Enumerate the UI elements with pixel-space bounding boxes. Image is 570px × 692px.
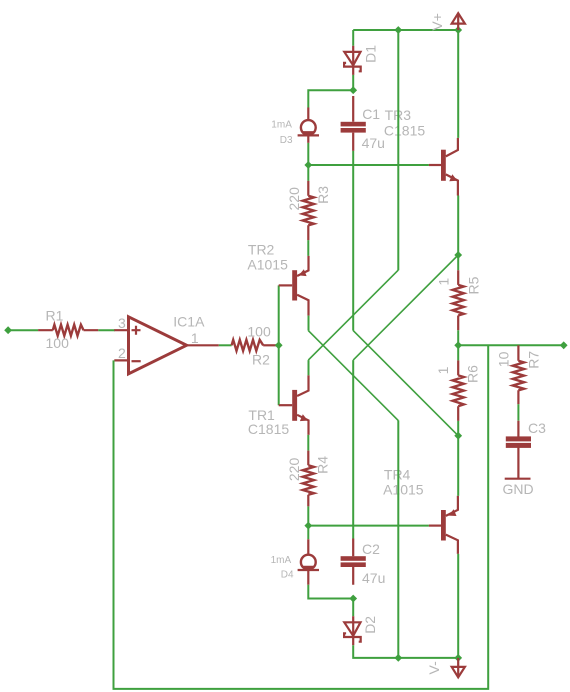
node A (D3/R3/TR3 base) bbox=[304, 161, 312, 169]
node output junction bbox=[454, 341, 462, 349]
svg-text:1: 1 bbox=[191, 330, 199, 346]
wire node B to D4 bbox=[307, 526, 309, 540]
power V- symbol bbox=[426, 658, 465, 677]
svg-text:D3: D3 bbox=[280, 135, 293, 146]
svg-text:R7: R7 bbox=[526, 351, 542, 369]
svg-text:1mA: 1mA bbox=[271, 119, 292, 130]
wire R1 to op-amp pin 3 bbox=[98, 329, 115, 331]
wire TR1 collector to V+ rail (diagonal) bbox=[308, 360, 310, 375]
resistor R2 bbox=[232, 323, 279, 367]
wire D1 bottom to node bbox=[352, 75, 354, 90]
wire input to R1 bbox=[8, 329, 38, 331]
svg-text:C1815: C1815 bbox=[384, 122, 425, 138]
wire TR2 collector to V- rail (diagonal) bbox=[308, 316, 310, 331]
wire bases vertical bbox=[278, 285, 280, 405]
node R6 bottom bbox=[454, 432, 462, 440]
node IN (input terminal dot) bbox=[4, 326, 12, 334]
svg-text:1mA: 1mA bbox=[271, 555, 292, 566]
wire D1 top bbox=[352, 30, 354, 46]
svg-text:C2: C2 bbox=[362, 541, 380, 557]
svg-text:47u: 47u bbox=[362, 135, 385, 151]
resistor R7 10 bbox=[496, 345, 542, 404]
svg-text:V+: V+ bbox=[429, 13, 445, 31]
wire output horizontal bbox=[458, 344, 564, 346]
power V+ symbol bbox=[429, 13, 465, 31]
svg-text:A1015: A1015 bbox=[383, 481, 424, 497]
wire D2 to bottom rail bbox=[353, 645, 458, 658]
capacitor C2 47u bbox=[341, 539, 386, 587]
wire bias node B to TR4 base bbox=[308, 525, 429, 527]
capacitor C1 47u bbox=[341, 96, 385, 151]
wire TR4 collector to V- bbox=[457, 554, 459, 658]
svg-text:V-: V- bbox=[426, 661, 442, 675]
wire TR3 emitter to R5 node bbox=[457, 196, 459, 256]
wire TR3 collector to V+ bbox=[457, 30, 459, 138]
svg-text:R2: R2 bbox=[252, 352, 270, 368]
node bottom rail at V- bbox=[454, 654, 462, 662]
resistor R5 1 bbox=[435, 255, 481, 330]
capacitor C3 bbox=[506, 420, 546, 478]
wire R5 to output node bbox=[457, 330, 459, 345]
ground GND symbol bbox=[503, 479, 534, 497]
transistor TR3 C1815 bbox=[384, 107, 458, 195]
wire C1 bottom to R6 node (diagonal bootstrap) bbox=[352, 151, 354, 331]
svg-text:R1: R1 bbox=[46, 308, 64, 324]
svg-text:47u: 47u bbox=[362, 570, 385, 586]
svg-text:TR4: TR4 bbox=[384, 466, 411, 482]
svg-text:R6: R6 bbox=[465, 365, 481, 383]
node B (R4/D4/TR4 base) bbox=[304, 522, 312, 530]
svg-text:R3: R3 bbox=[315, 186, 331, 204]
transistor TR2 A1015 bbox=[247, 242, 308, 316]
wire C2 top to R5 node (diagonal bootstrap) bbox=[352, 360, 354, 538]
svg-text:TR2: TR2 bbox=[248, 242, 275, 258]
node R2-bases junction bbox=[275, 341, 283, 349]
wire R4 to node B bbox=[307, 506, 309, 525]
wire D4 to node C2-D2 bbox=[308, 585, 353, 599]
wire bias node A to TR3 base bbox=[308, 164, 429, 166]
wire feedback: pin2 down, across bottom, up to output bbox=[114, 345, 489, 689]
svg-text:IC1A: IC1A bbox=[173, 313, 205, 329]
current diode D4 1mA bbox=[271, 539, 319, 585]
svg-text:100: 100 bbox=[46, 335, 70, 351]
op-amp U1 IC1A bbox=[114, 313, 205, 374]
transistor TR4 A1015 bbox=[383, 466, 458, 554]
resistor R4 220 bbox=[286, 451, 331, 507]
node bottom rail at x398 bbox=[394, 654, 402, 662]
svg-text:R4: R4 bbox=[315, 456, 331, 474]
svg-text:2: 2 bbox=[118, 345, 126, 361]
svg-text:GND: GND bbox=[503, 481, 534, 497]
wire TR4 emitter to R6 node bbox=[457, 436, 459, 496]
svg-text:C1815: C1815 bbox=[248, 421, 289, 437]
node C2-D4-D2 bbox=[349, 595, 357, 603]
svg-text:10: 10 bbox=[496, 351, 512, 367]
wire top rail V+ bbox=[353, 29, 458, 31]
wire node to D3 bbox=[308, 90, 353, 107]
wire R7 to C3 bbox=[517, 404, 519, 421]
resistor R6 1 bbox=[435, 345, 481, 435]
diode D1 (zener) bbox=[344, 45, 378, 75]
svg-text:D2: D2 bbox=[362, 616, 378, 634]
wire node A to R3 bbox=[307, 165, 309, 181]
wire node to D2 bbox=[352, 599, 354, 617]
wire TR1 emitter to R4 bbox=[307, 435, 309, 451]
svg-text:D1: D1 bbox=[362, 45, 378, 63]
svg-text:C3: C3 bbox=[528, 420, 546, 436]
node top rail at x398 bbox=[394, 26, 402, 34]
current diode D3 1mA bbox=[271, 108, 319, 147]
svg-text:220: 220 bbox=[286, 187, 302, 211]
resistor R1 bbox=[38, 308, 98, 351]
svg-text:1: 1 bbox=[435, 366, 451, 374]
svg-text:C1: C1 bbox=[362, 106, 380, 122]
resistor R3 220 bbox=[286, 181, 331, 240]
wire D3 to bias node A bbox=[307, 143, 309, 165]
svg-text:220: 220 bbox=[286, 458, 302, 482]
node top rail at V+ bbox=[454, 26, 462, 34]
node D1-D3-C1 bbox=[349, 86, 357, 94]
svg-text:A1015: A1015 bbox=[247, 256, 288, 272]
node R5 top bbox=[454, 251, 462, 259]
transistor TR1 C1815 bbox=[248, 375, 309, 437]
svg-text:D4: D4 bbox=[281, 570, 294, 581]
node OUT terminal bbox=[560, 341, 568, 349]
wire op-amp output pin 1 bbox=[187, 344, 219, 346]
wire R3 to TR2 emitter bbox=[307, 240, 309, 256]
svg-text:100: 100 bbox=[247, 323, 271, 339]
diode D2 (zener) bbox=[344, 616, 378, 646]
svg-text:3: 3 bbox=[118, 315, 126, 331]
svg-text:1: 1 bbox=[435, 278, 451, 286]
svg-text:R5: R5 bbox=[466, 276, 482, 294]
